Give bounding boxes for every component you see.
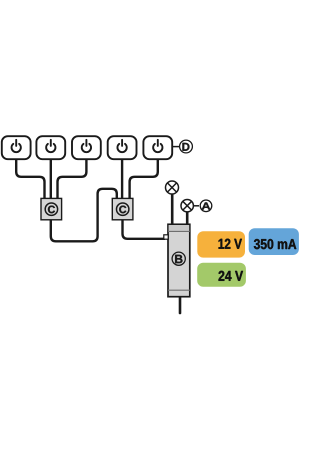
driver B body: [168, 224, 190, 296]
connector C2: [112, 198, 133, 219]
wire from switch S2 to connector C1: [50, 157, 52, 200]
switch S4: [108, 136, 137, 159]
switch S3: [72, 136, 101, 159]
wire from switch S5 to connector C2: [130, 157, 158, 200]
lamp E1: [166, 181, 179, 194]
label 12 V: [197, 231, 245, 257]
wire from switch S4 to connector C2: [121, 157, 123, 200]
driver B input nub: [164, 235, 168, 239]
switch S2: [36, 136, 65, 159]
node D callout: [173, 140, 193, 153]
wire chain from connector C1 to connector C2: [51, 189, 117, 242]
wire from lamp E1 to driver B: [171, 193, 174, 226]
wire from switch S3 to connector C1: [58, 157, 87, 200]
connector C1: [41, 198, 62, 219]
wire from lamp E2 to driver B: [186, 211, 189, 226]
switch S5: [143, 136, 172, 159]
lamp E2: [181, 200, 193, 212]
label 24 V: [197, 263, 246, 287]
label 350 mA: [249, 228, 299, 255]
switch S1: [2, 136, 31, 159]
wire from connector C2 to driver B: [123, 218, 166, 239]
wire from switch S1 to connector C1: [16, 157, 44, 200]
node A callout: [194, 200, 212, 212]
wire output at bottom of driver B: [179, 296, 182, 313]
